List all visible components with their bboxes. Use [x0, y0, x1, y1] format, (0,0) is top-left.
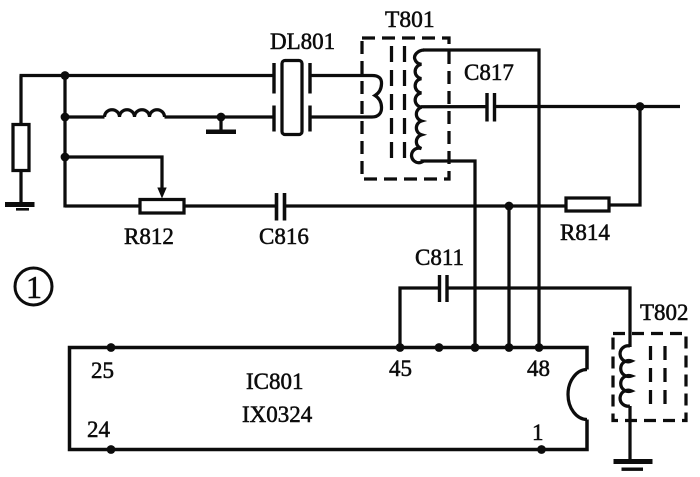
ground (left): [5, 202, 35, 211]
svg-text:C817: C817: [464, 60, 514, 85]
wire R812 to C816: [184, 204, 275, 207]
node junction second wire: [61, 113, 70, 122]
inductor (unlabeled): [105, 110, 165, 117]
svg-text:DL801: DL801: [270, 29, 335, 54]
pin 1 dot: [537, 445, 546, 454]
pin 24 dot: [107, 445, 116, 454]
wire secondary center tap: [421, 105, 486, 108]
IC IC801 box: [70, 348, 588, 450]
svg-text:R812: R812: [124, 224, 174, 249]
svg-text:48: 48: [527, 356, 550, 381]
svg-text:IX0324: IX0324: [242, 402, 313, 427]
ground (below T802): [614, 459, 653, 471]
node junction top-left: [61, 71, 70, 80]
svg-text:1: 1: [26, 269, 42, 305]
wire C816 to R814: [286, 204, 567, 207]
pin 47a dot: [471, 343, 480, 352]
figure number circled 1: [15, 268, 52, 305]
wire pin47 riser: [507, 206, 510, 348]
node junction R814 top: [636, 102, 645, 111]
pin 25 dot: [107, 343, 116, 352]
transformer T801 secondary coil: [412, 50, 424, 163]
wire DL801 bottom right: [312, 115, 373, 118]
resistor R812: [140, 200, 184, 214]
pin 46 dot: [435, 343, 444, 352]
node junction bottom wire to pin 47: [505, 202, 514, 211]
wire bottom left: [65, 204, 141, 207]
svg-text:C811: C811: [415, 245, 464, 270]
transformer T801 box (dashed): [362, 38, 449, 179]
svg-text:C816: C816: [259, 224, 309, 249]
node junction branch: [61, 153, 70, 162]
svg-text:R814: R814: [560, 220, 610, 245]
delay line DL801 plates right: [308, 63, 311, 132]
wire second horizontal left part: [65, 115, 105, 118]
node junction at ground tap: [217, 113, 226, 122]
capacitor C817: [487, 93, 495, 122]
wire secondary bottom: [421, 161, 476, 348]
wire left vertical to resistor: [19, 76, 22, 127]
wire branch to R812 wiper: [65, 157, 162, 189]
svg-text:24: 24: [87, 417, 111, 442]
transformer T802 coil: [620, 346, 631, 406]
wire secondary top to pin48 column: [423, 50, 539, 348]
wire ground stub: [219, 117, 222, 130]
wire DL801 top right: [312, 74, 373, 77]
pin 47b dot: [505, 343, 514, 352]
IC801 notch: [568, 370, 587, 420]
wire resistor to ground: [19, 171, 22, 205]
transformer T802 box (dashed): [613, 334, 686, 421]
transformer T802 core lines: [651, 346, 666, 408]
wire vertical bus x=65: [63, 76, 66, 208]
wire C811 to T802: [449, 288, 631, 347]
wire C817 to right: [496, 105, 680, 108]
wire pin45 riser and C811 line: [400, 288, 438, 348]
svg-text:45: 45: [389, 356, 412, 381]
capacitor C811: [440, 275, 448, 302]
delay line DL801 body: [282, 61, 302, 135]
svg-text:1: 1: [532, 420, 544, 445]
ground (mid, on second wire): [206, 130, 236, 135]
resistor (unlabeled, left): [13, 125, 29, 171]
wire second horizontal right part: [165, 115, 273, 118]
delay line DL801 plates left: [272, 63, 275, 132]
svg-text:T802: T802: [640, 300, 689, 325]
svg-text:T801: T801: [385, 7, 435, 33]
wire T802 to ground: [628, 406, 631, 459]
svg-text:IC801: IC801: [246, 369, 304, 394]
wiper arrow of R812: [157, 188, 166, 199]
svg-text:25: 25: [91, 358, 114, 383]
wire R814 to vertical riser: [609, 107, 640, 206]
transformer T801 core lines: [392, 46, 405, 162]
pin 48 dot: [535, 343, 544, 352]
pin 45 dot: [396, 343, 405, 352]
transformer T801 primary coil: [372, 76, 382, 118]
wire top horizontal left: [20, 74, 273, 77]
capacitor C816: [277, 193, 285, 221]
resistor R814: [566, 198, 609, 211]
